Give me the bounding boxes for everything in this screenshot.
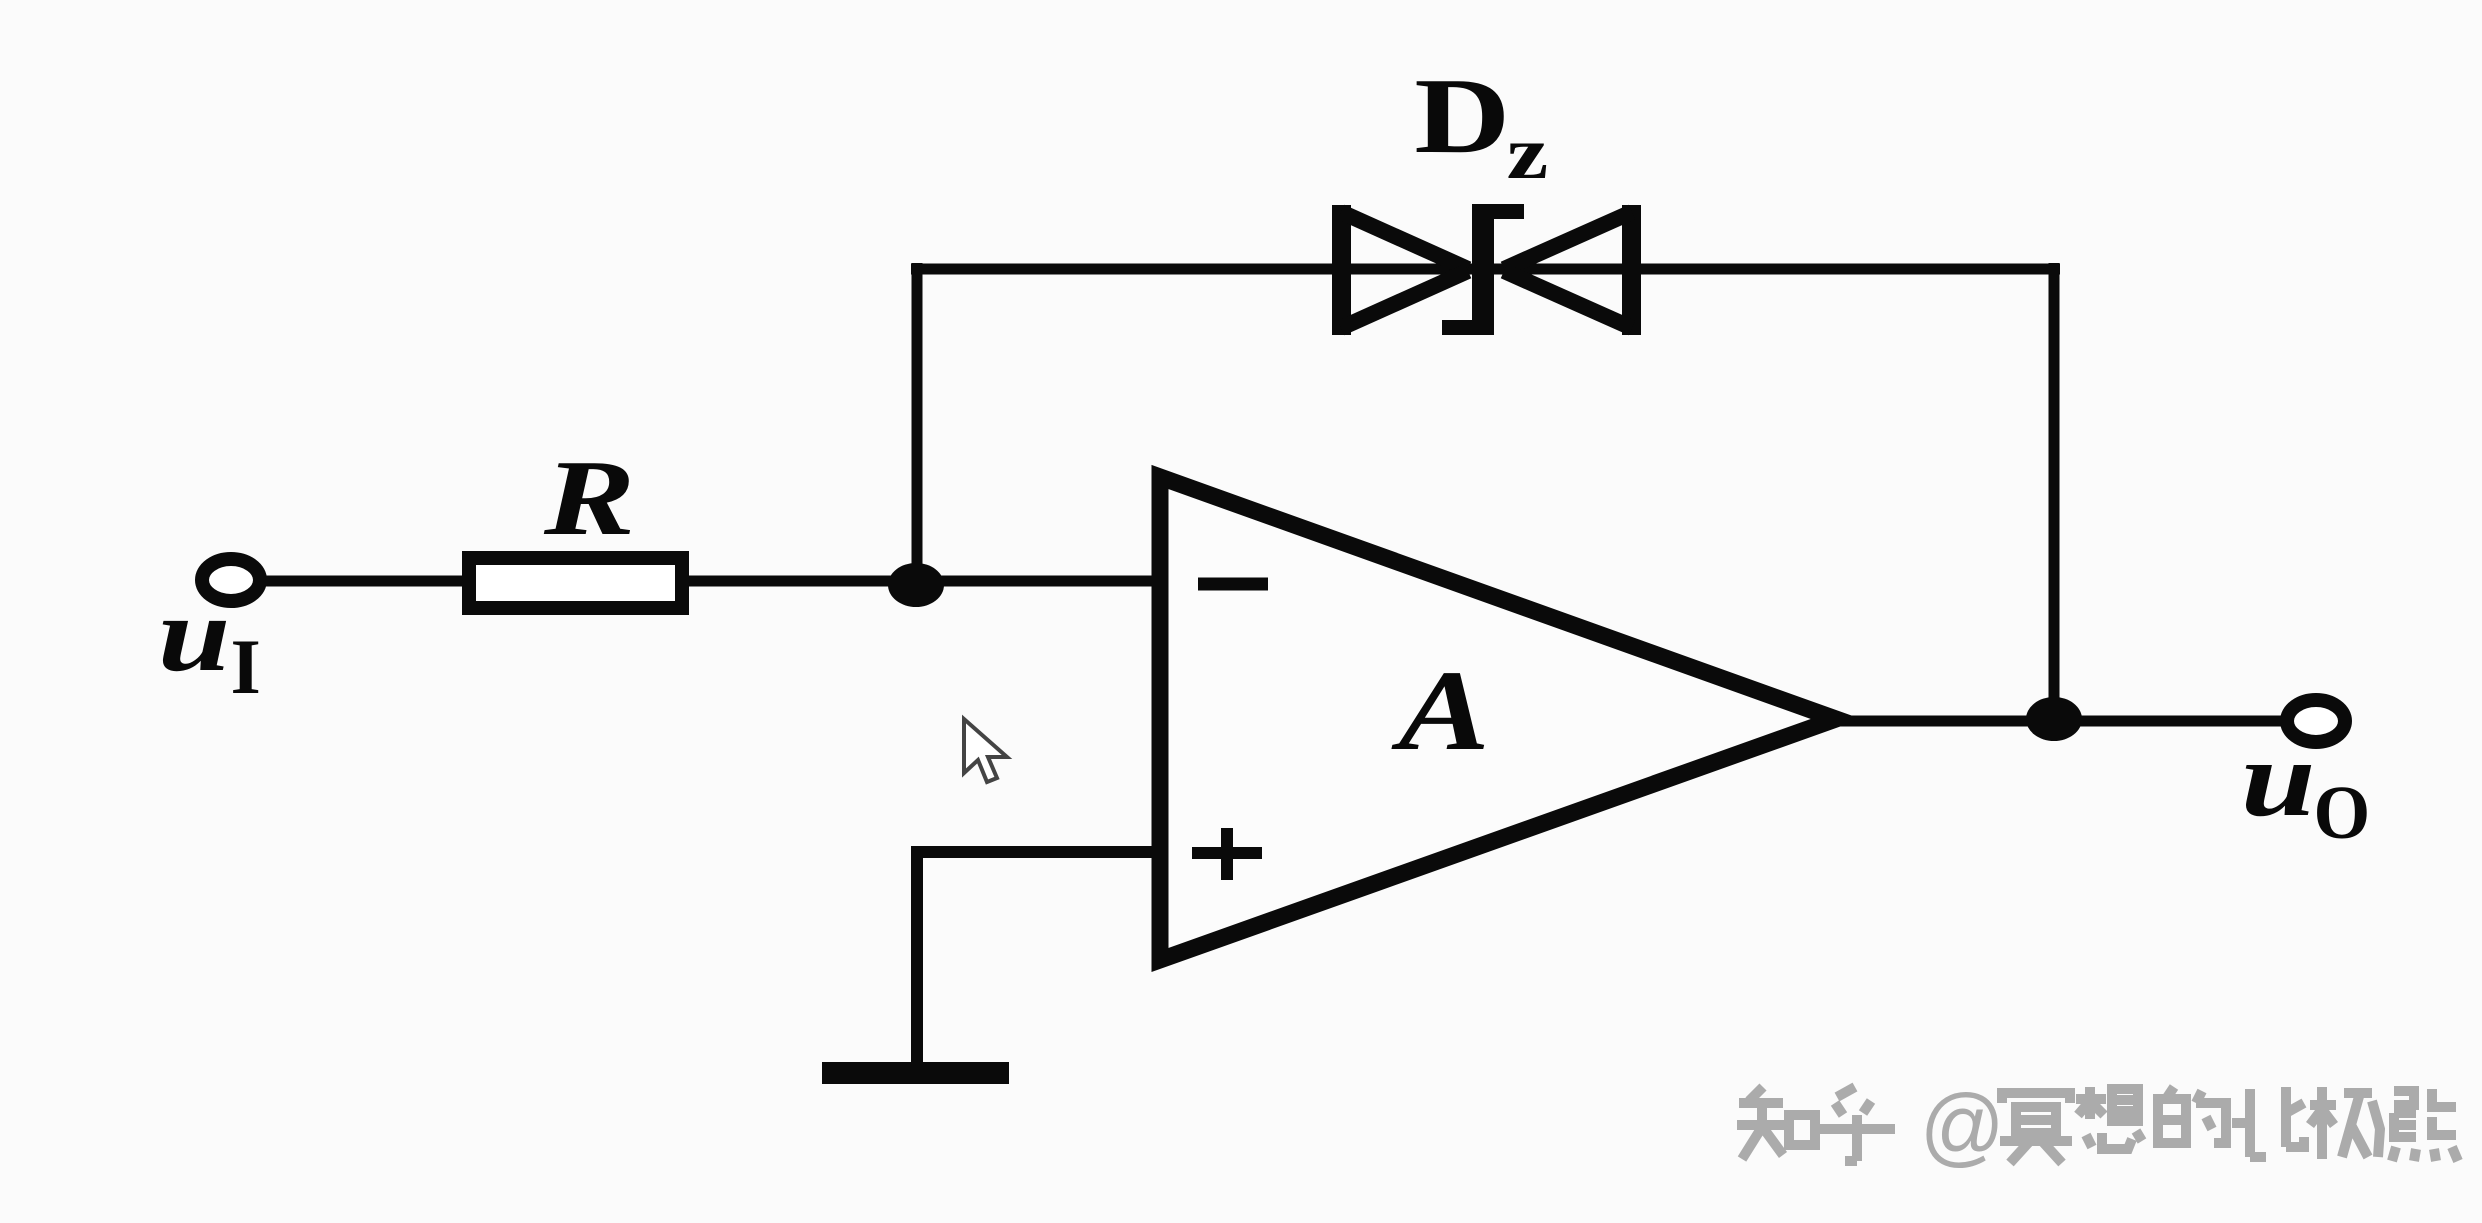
- wire: feedback vertical right: [2049, 263, 2060, 719]
- op-amp A: inverting input wire stub: [1151, 576, 1162, 587]
- svg-text:z: z: [1507, 112, 1549, 195]
- wire: non-inverting input to ground: [917, 852, 1162, 1065]
- svg-text:D: D: [1414, 57, 1510, 177]
- op-amp A: minus marker: [1198, 578, 1268, 591]
- ground: [822, 1062, 1009, 1084]
- mouse cursor: [964, 719, 1007, 782]
- wire: feedback vertical left: [912, 263, 923, 585]
- op-amp A: triangle body: [1160, 477, 1836, 960]
- wire: op-amp output to terminal: [1830, 716, 2288, 727]
- svg-text:I: I: [231, 623, 261, 710]
- terminal u_O: [2287, 700, 2345, 742]
- svg-text:u: u: [158, 575, 230, 693]
- node: inverting input junction: [888, 563, 944, 607]
- wire: input terminal to resistor: [258, 576, 470, 587]
- zener diode Dz: cathode bottom tick: [1442, 320, 1472, 335]
- op-amp A: plus marker: [1192, 847, 1262, 859]
- wire: feedback top horizontal: [911, 264, 2060, 275]
- svg-text:O: O: [2314, 772, 2371, 856]
- zener diode Dz: cathode top tick: [1494, 204, 1524, 219]
- resistor R: [469, 558, 682, 608]
- svg-text:@: @: [1920, 1077, 2005, 1175]
- watermark: 知乎 @冥想的北极熊: [1737, 1087, 1895, 1161]
- terminal u_I: [202, 559, 260, 601]
- zener diode Dz: right anode triangle: [1622, 205, 1641, 335]
- zener diode Dz: center cathode bar: [1472, 204, 1494, 335]
- zener diode Dz: left anode triangle: [1332, 205, 1351, 335]
- svg-text:A: A: [1391, 647, 1490, 774]
- wire: resistor to node: [688, 576, 920, 587]
- svg-text:R: R: [543, 438, 635, 558]
- node: output junction: [2026, 697, 2082, 741]
- svg-text:u: u: [2241, 719, 2316, 839]
- wire: node to inverting input: [912, 576, 1162, 587]
